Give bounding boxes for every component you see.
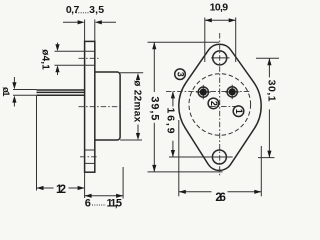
svg-text:3,5: 3,5	[89, 4, 104, 16]
svg-text:39,5: 39,5	[148, 96, 160, 120]
svg-text:10,9: 10,9	[210, 2, 229, 14]
svg-text:30,1: 30,1	[266, 80, 278, 102]
svg-text:2: 2	[209, 101, 219, 106]
svg-text:0,7: 0,7	[66, 4, 80, 16]
svg-text:11,5: 11,5	[107, 198, 123, 210]
svg-text:3: 3	[175, 72, 185, 77]
svg-text:12: 12	[56, 184, 66, 196]
svg-text:ø1: ø1	[0, 87, 11, 97]
svg-text:26: 26	[215, 192, 226, 204]
svg-text:ø4,1: ø4,1	[39, 49, 50, 70]
svg-text:16,9: 16,9	[164, 108, 176, 134]
svg-text:ø 22max: ø 22max	[131, 80, 142, 122]
svg-text:1: 1	[234, 109, 244, 114]
svg-text:6: 6	[85, 198, 91, 210]
